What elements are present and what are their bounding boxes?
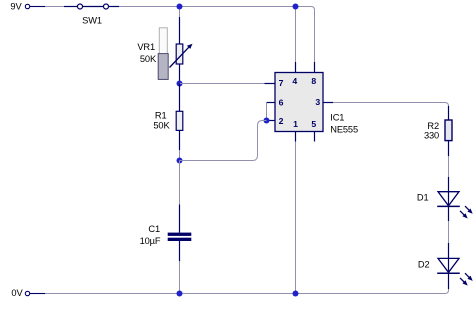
svg-text:330: 330 <box>424 131 439 141</box>
node: bottom rail junction at pin 1 <box>293 291 299 297</box>
node: bottom rail junction at C1 <box>177 291 183 297</box>
variable resistor VR1 <box>137 17 192 84</box>
svg-text:3: 3 <box>315 97 320 107</box>
pin 8 stub <box>314 62 316 73</box>
pin 7 label <box>279 78 284 88</box>
svg-text:4: 4 <box>292 76 297 86</box>
svg-text:2: 2 <box>279 116 284 126</box>
wire: D1 to D2 <box>448 221 450 243</box>
resistor R2 <box>424 106 452 156</box>
svg-text:1: 1 <box>293 119 298 129</box>
svg-text:8: 8 <box>311 76 316 86</box>
wire: bottom 0V rail with corner up to D2 <box>30 289 449 294</box>
svg-text:10µF: 10µF <box>140 236 161 246</box>
pin 8 label <box>311 76 316 86</box>
wire: pin 6 down to pin 2 junction <box>266 103 268 121</box>
svg-text:SW1: SW1 <box>82 15 102 25</box>
node 9V terminal <box>10 2 29 12</box>
wire: top 9V rail left segment <box>30 6 78 8</box>
capacitor C1 <box>140 205 192 262</box>
svg-text:VR1: VR1 <box>137 42 155 52</box>
svg-text:0V: 0V <box>11 288 23 298</box>
wire: junction down to C1 <box>179 161 181 205</box>
pin 2 stub <box>267 120 276 122</box>
pin 1 stub <box>295 132 297 142</box>
svg-text:D2: D2 <box>418 260 430 270</box>
svg-text:R1: R1 <box>155 110 167 120</box>
LED D2 <box>418 243 473 289</box>
pin 6 stub <box>267 102 276 104</box>
node: R1/C1/pin2 junction <box>177 158 183 164</box>
svg-text:5: 5 <box>311 119 316 129</box>
switch SW1 <box>78 4 109 25</box>
pin 2 label <box>279 116 284 126</box>
wire: R2 to D1 <box>448 156 450 177</box>
svg-text:IC1: IC1 <box>330 113 344 123</box>
resistor R1 <box>153 84 182 151</box>
pin 4 label <box>292 76 297 86</box>
node: pin2/pin6 junction <box>264 118 270 124</box>
pin 3 label <box>315 97 320 107</box>
LED D1 <box>417 177 473 221</box>
svg-text:7: 7 <box>279 78 284 88</box>
svg-text:9V: 9V <box>10 2 22 12</box>
svg-text:6: 6 <box>279 98 284 108</box>
pin 1 label <box>293 119 298 129</box>
pin 5 label <box>311 119 316 129</box>
slider control for VR1 <box>158 28 168 80</box>
node: top rail junction at VR1 branch <box>177 4 183 10</box>
IC U1: IC1 NE555 timer body <box>275 73 358 135</box>
node: top rail junction at pin 4 <box>293 4 299 10</box>
wire: pin 2 junction around to R1/C1 junction <box>180 121 267 161</box>
node: VR1/R1 junction <box>177 81 183 87</box>
wire: pin 1 down to bottom rail <box>295 142 297 294</box>
node 0V terminal <box>11 288 29 298</box>
pin 6 label <box>279 98 284 108</box>
pin 3 stub <box>323 102 333 104</box>
pin 5 stub (unconnected) <box>314 132 316 142</box>
wire: vertical from top rail to VR1 <box>179 7 181 18</box>
svg-text:50K: 50K <box>140 54 157 64</box>
svg-text:NE555: NE555 <box>330 125 358 135</box>
wire: R1 bottom to junction <box>179 150 181 161</box>
wire: from top rail junction down to pin 4 <box>295 7 297 63</box>
svg-text:C1: C1 <box>148 224 160 234</box>
svg-text:50K: 50K <box>153 120 170 130</box>
wire: pin 3 to R2 with corner <box>333 103 449 107</box>
svg-text:D1: D1 <box>417 192 429 202</box>
wire: junction to IC pin 7 <box>180 83 276 85</box>
wire: C1 to bottom rail <box>179 261 181 294</box>
pin 4 stub <box>295 62 297 73</box>
wire: top 9V rail right segment with corner down to pin 8 <box>109 7 315 63</box>
